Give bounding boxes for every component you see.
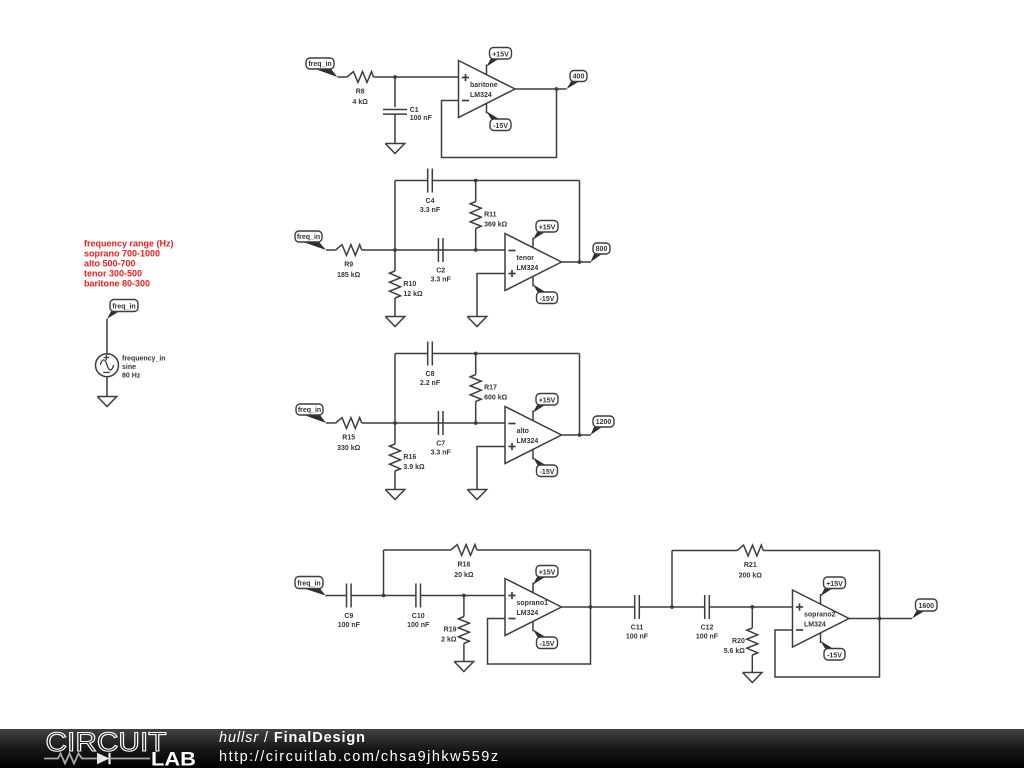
svg-text:185 kΩ: 185 kΩ: [337, 272, 361, 279]
svg-text:+15V: +15V: [539, 398, 556, 405]
svg-text:100 nF: 100 nF: [696, 634, 719, 641]
svg-text:soprano1: soprano1: [517, 600, 549, 607]
svg-text:200 kΩ: 200 kΩ: [739, 573, 763, 580]
svg-text:baritone: baritone: [470, 82, 498, 89]
svg-text:C2: C2: [436, 267, 445, 274]
svg-text:C12: C12: [701, 624, 714, 631]
svg-text:800: 800: [596, 246, 608, 253]
svg-text:330 kΩ: 330 kΩ: [337, 445, 361, 452]
svg-text:tenor 300-500: tenor 300-500: [84, 268, 142, 278]
svg-text:1200: 1200: [596, 419, 612, 426]
svg-text:R20: R20: [732, 638, 745, 645]
svg-text:-15V: -15V: [540, 296, 555, 303]
svg-text:C9: C9: [344, 613, 353, 620]
svg-text:100 nF: 100 nF: [407, 622, 430, 629]
svg-text:-15V: -15V: [540, 469, 555, 476]
svg-text:C11: C11: [631, 624, 644, 631]
svg-text:soprano2: soprano2: [804, 612, 836, 619]
svg-text:frequency range (Hz): frequency range (Hz): [84, 239, 174, 249]
svg-text:R18: R18: [457, 562, 470, 569]
svg-text:1600: 1600: [918, 603, 934, 610]
svg-text:LM324: LM324: [804, 622, 826, 629]
svg-text:LM324: LM324: [517, 265, 539, 272]
svg-text:80 Hz: 80 Hz: [122, 372, 141, 379]
svg-text:C10: C10: [412, 613, 425, 620]
svg-text:CIRCUIT: CIRCUIT: [46, 729, 167, 757]
svg-text:LM324: LM324: [470, 92, 492, 99]
svg-text:100 nF: 100 nF: [410, 115, 433, 122]
svg-text:freq_in: freq_in: [298, 407, 321, 414]
svg-text:+15V: +15V: [492, 52, 509, 59]
svg-text:alto 500-700: alto 500-700: [84, 259, 136, 269]
svg-text:C4: C4: [426, 198, 435, 205]
svg-text:alto: alto: [517, 428, 529, 435]
svg-text:R11: R11: [484, 212, 497, 219]
svg-text:3.3 nF: 3.3 nF: [431, 450, 452, 457]
svg-text:+15V: +15V: [826, 581, 843, 588]
svg-text:R19: R19: [444, 627, 457, 634]
svg-text:soprano 700-1000: soprano 700-1000: [84, 249, 160, 259]
svg-text:freq_in: freq_in: [112, 304, 135, 311]
svg-text:R15: R15: [342, 435, 355, 442]
svg-text:C1: C1: [410, 107, 419, 114]
svg-text:freq_in: freq_in: [308, 61, 331, 68]
svg-text:LM324: LM324: [517, 610, 539, 617]
svg-text:4 kΩ: 4 kΩ: [353, 99, 369, 106]
svg-text:-15V: -15V: [540, 641, 555, 648]
svg-text:R8: R8: [356, 89, 365, 96]
svg-text:C7: C7: [436, 440, 445, 447]
svg-text:100 nF: 100 nF: [626, 634, 649, 641]
svg-text:3.9 kΩ: 3.9 kΩ: [403, 464, 425, 471]
svg-text:600 kΩ: 600 kΩ: [484, 395, 508, 402]
svg-text:3.3 nF: 3.3 nF: [420, 207, 441, 214]
svg-text:20 kΩ: 20 kΩ: [454, 572, 474, 579]
svg-text:2 kΩ: 2 kΩ: [441, 637, 457, 644]
svg-text:369 kΩ: 369 kΩ: [484, 222, 508, 229]
svg-text:400: 400: [573, 74, 585, 81]
svg-text:LAB: LAB: [151, 750, 196, 769]
svg-text:+15V: +15V: [539, 225, 556, 232]
svg-text:baritone 80-300: baritone 80-300: [84, 278, 150, 288]
svg-text:freq_in: freq_in: [297, 234, 320, 241]
svg-text:sine: sine: [122, 364, 136, 371]
svg-text:freq_in: freq_in: [297, 581, 320, 588]
svg-text:3.3 nF: 3.3 nF: [431, 277, 452, 284]
svg-text:+15V: +15V: [539, 570, 556, 577]
svg-text:frequency_in: frequency_in: [122, 355, 166, 362]
svg-text:-15V: -15V: [827, 653, 842, 660]
svg-text:5.6 kΩ: 5.6 kΩ: [724, 648, 746, 655]
svg-text:R16: R16: [403, 454, 416, 461]
svg-text:R17: R17: [484, 385, 497, 392]
svg-text:R10: R10: [403, 281, 416, 288]
svg-text:R9: R9: [344, 262, 353, 269]
svg-text:C8: C8: [426, 371, 435, 378]
svg-text:LM324: LM324: [517, 438, 539, 445]
svg-text:100 nF: 100 nF: [338, 622, 361, 629]
svg-text:12 kΩ: 12 kΩ: [403, 291, 423, 298]
svg-text:tenor: tenor: [517, 255, 535, 262]
svg-text:-15V: -15V: [493, 123, 508, 130]
svg-text:R21: R21: [744, 562, 757, 569]
svg-text:2.2 nF: 2.2 nF: [420, 380, 441, 387]
